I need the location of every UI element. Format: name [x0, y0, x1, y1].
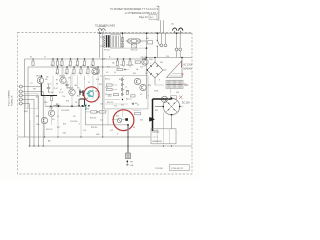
- svg-text:SIGNAL IN: SIGNAL IN: [10, 95, 13, 106]
- junction: [81, 105, 83, 107]
- junction in box: [122, 99, 123, 100]
- svg-text:BL: BL: [152, 123, 154, 125]
- wire: [123, 69, 129, 71]
- wire down 2: [80, 106, 82, 137]
- wire primary bottom: [100, 45, 105, 47]
- wire: [179, 33, 181, 48]
- svg-text:C11: C11: [105, 87, 108, 89]
- wire from note to bus 2: [163, 20, 165, 33]
- wire stub R25: [97, 67, 99, 69]
- wire stub R17: [123, 59, 125, 61]
- wire: [163, 113, 165, 129]
- plug lead: [174, 31, 176, 33]
- svg-text:R14: R14: [77, 96, 80, 98]
- wire: [180, 106, 184, 108]
- svg-text:R39 220: R39 220: [90, 118, 96, 120]
- svg-text:150: 150: [120, 65, 123, 67]
- wire box drop 2: [122, 109, 124, 117]
- choke L901 winding hatch: [166, 81, 168, 88]
- svg-text:C9: C9: [105, 94, 107, 96]
- wire: [112, 89, 117, 91]
- svg-text:68k: 68k: [75, 85, 78, 87]
- wire stub R16: [117, 59, 119, 61]
- svg-text:D8: D8: [101, 104, 103, 106]
- wire stub R20: [57, 67, 59, 69]
- fuse clip a: [175, 48, 178, 51]
- svg-text:o o o o: o o o o: [153, 137, 159, 139]
- svg-text:1k: 1k: [125, 87, 127, 89]
- svg-text:1k: 1k: [72, 73, 74, 75]
- svg-text:56k: 56k: [112, 63, 115, 65]
- svg-text:0.5: 0.5: [106, 72, 108, 74]
- svg-text:D5: D5: [78, 88, 80, 90]
- resistor R17: [122, 61, 124, 65]
- wire Q1 base: [40, 78, 42, 87]
- svg-text:R7: R7: [56, 80, 58, 82]
- svg-text:47k: 47k: [75, 102, 78, 104]
- svg-text:10/16: 10/16: [49, 108, 53, 110]
- svg-text:R21: R21: [119, 79, 122, 81]
- svg-text:S: S: [159, 80, 160, 82]
- resistor R14: [83, 61, 85, 65]
- wire: V+ rail: [25, 58, 144, 60]
- svg-text:4.7k: 4.7k: [75, 65, 78, 67]
- AC plug P901 prong 2: [179, 28, 183, 31]
- title block box: [170, 165, 190, 171]
- svg-text:R5: R5: [36, 97, 38, 99]
- resistor R23: [80, 69, 82, 73]
- thick wire: DC rail down: [152, 99, 154, 131]
- svg-text:220k: 220k: [44, 102, 48, 104]
- svg-text:R48: R48: [148, 85, 151, 87]
- svg-text:R41 0.5: R41 0.5: [126, 99, 132, 101]
- fuse clip b: [179, 48, 182, 51]
- pilot lamp PL901: [161, 96, 167, 102]
- input shield box: [26, 94, 39, 109]
- wire Q5 emitter: [44, 124, 46, 137]
- svg-text:Page 6 (TUNER): Page 6 (TUNER): [9, 90, 11, 106]
- svg-text:R40 1k: R40 1k: [105, 78, 110, 80]
- svg-text:R18: R18: [66, 101, 69, 103]
- wire: [161, 33, 163, 44]
- resistor R904: [171, 96, 177, 99]
- relay contact a: [128, 40, 131, 43]
- wire from note to bus: [160, 20, 162, 33]
- capacitor C15 (black): [125, 118, 128, 121]
- svg-text:C3 10: C3 10: [47, 84, 51, 86]
- wire: [155, 106, 163, 108]
- resistor R902: [121, 43, 123, 47]
- wire: long vertical feeder: [102, 33, 104, 137]
- wire jack J5: [22, 103, 29, 105]
- svg-text:Page 10: Page 10: [139, 17, 148, 19]
- connector pin b: [164, 44, 167, 47]
- svg-text:D901: D901: [149, 59, 153, 61]
- svg-text:1k: 1k: [88, 82, 90, 84]
- wire: top AC bus: [98, 32, 193, 34]
- svg-text:47k: 47k: [94, 101, 97, 103]
- thermal breaker TH901 triangle: [167, 61, 183, 78]
- svg-text:TO POWER LINES: TO POWER LINES: [95, 25, 115, 27]
- svg-text:R26: R26: [63, 124, 66, 126]
- svg-text:DC 33V: DC 33V: [182, 103, 191, 105]
- svg-text:24V: 24V: [184, 85, 189, 87]
- connector P1: [98, 29, 101, 31]
- wire resistor drop: [129, 75, 131, 77]
- input jack J5: [19, 102, 22, 105]
- bridge rectifier D901: [147, 62, 163, 78]
- cyan wire mark: [85, 104, 87, 111]
- svg-text:+35: +35: [103, 59, 106, 61]
- resistor R12: [69, 61, 71, 65]
- ground symbol: [126, 162, 129, 165]
- transistor Q9: [140, 84, 146, 90]
- thermistor lead: [118, 119, 121, 122]
- wire resistor drop: [92, 76, 94, 100]
- resistor R35: [107, 84, 113, 86]
- wire down J4: [33, 100, 35, 147]
- svg-text:R45: R45: [133, 73, 136, 75]
- svg-text:47: 47: [86, 73, 88, 75]
- terminal divider 2: [162, 129, 164, 144]
- wire Q2 collector: [62, 67, 64, 77]
- svg-text:470: 470: [68, 78, 71, 80]
- input jack J1: [19, 85, 22, 88]
- wire: [44, 96, 46, 107]
- svg-text:56: 56: [99, 97, 101, 99]
- svg-text:2SD218: 2SD218: [141, 57, 147, 59]
- transistor Q7: [142, 59, 148, 65]
- rail junction dots: [32, 58, 33, 59]
- svg-text:R15: R15: [99, 84, 102, 86]
- diode string D7-D10: [122, 77, 124, 96]
- svg-text:1k: 1k: [68, 65, 70, 67]
- wire: bias rail: [28, 66, 120, 68]
- pilot lamp filament: [163, 98, 166, 101]
- choke L901 box: [166, 80, 183, 88]
- svg-text:C14: C14: [100, 120, 103, 122]
- svg-text:0.47: 0.47: [114, 106, 117, 108]
- junction Q7: [144, 58, 146, 60]
- wire plug lead: [99, 31, 101, 33]
- wire stub R12: [70, 59, 72, 61]
- junction bridge E: [179, 106, 181, 108]
- junction: [146, 57, 148, 59]
- wire jack J4: [22, 99, 34, 101]
- wire from switch: [156, 47, 158, 58]
- wire: [141, 40, 147, 42]
- wire Q4 emitter: [51, 117, 53, 125]
- junction Q1: [41, 75, 43, 77]
- svg-text:100: 100: [55, 73, 58, 75]
- wire: [51, 101, 53, 110]
- resistor R21: [66, 69, 68, 73]
- junction: [97, 111, 98, 112]
- junction: [88, 105, 90, 107]
- svg-text:PT-901: PT-901: [104, 50, 110, 52]
- thick wire: output: [127, 125, 129, 153]
- terminal strip box: [151, 129, 176, 144]
- wire: AC feeder down: [99, 33, 101, 58]
- connector pin a: [160, 44, 163, 47]
- resistor R24: [87, 69, 89, 73]
- resistor R16: [116, 61, 118, 65]
- wire stub R14: [84, 59, 86, 61]
- svg-text:0.22: 0.22: [145, 73, 148, 75]
- wire inside box: [105, 99, 120, 101]
- driver board outline: [104, 76, 148, 109]
- svg-text:R16: R16: [87, 108, 90, 110]
- svg-text:E 4 8 16: E 4 8 16: [153, 132, 160, 134]
- wire stub R13: [77, 59, 79, 61]
- wire: [176, 33, 178, 48]
- resistor R47: [126, 90, 128, 94]
- svg-text:47u: 47u: [52, 119, 55, 121]
- thick wire from Q1 emitter: [41, 83, 57, 95]
- svg-text:C5 47: C5 47: [54, 88, 58, 90]
- wire: chassis rail: [30, 145, 192, 147]
- wire stub R22: [73, 67, 75, 69]
- wire resistor drop: [123, 76, 125, 78]
- capacitor C8: [54, 104, 61, 107]
- svg-text:123 456: 123 456: [155, 168, 163, 170]
- resistor R22: [73, 69, 75, 73]
- wire: [170, 88, 172, 93]
- svg-text:R19: R19: [107, 67, 110, 69]
- bias diode cluster: [79, 90, 86, 106]
- svg-text:100k: 100k: [36, 124, 40, 126]
- jack J1 stub: [18, 86, 20, 88]
- wire: [112, 84, 117, 86]
- wire: [179, 51, 181, 58]
- svg-text:100k: 100k: [63, 133, 67, 135]
- wire Q7 top: [144, 58, 146, 60]
- wire resistor drop: [70, 76, 72, 90]
- svg-text:C1: C1: [44, 57, 46, 59]
- svg-text:R22 100: R22 100: [107, 102, 113, 104]
- thermistor TH1: [117, 118, 121, 122]
- diode D902 (black): [150, 117, 155, 121]
- junction: [181, 57, 183, 59]
- svg-text:220: 220: [73, 116, 76, 118]
- junction: [58, 105, 60, 107]
- wire: [111, 47, 147, 49]
- transistor Q6: [92, 68, 98, 74]
- junction in box 2: [132, 103, 133, 104]
- svg-text:C901 .01: C901 .01: [131, 50, 138, 52]
- wire: feedback down: [84, 107, 86, 125]
- jack J2 stub: [18, 91, 20, 93]
- svg-text:C20: C20: [166, 56, 169, 58]
- wire: AC return bus: [147, 57, 193, 59]
- jack J5 stub: [18, 103, 20, 105]
- wire Q3 collector: [71, 73, 73, 89]
- resistor R32: [135, 61, 140, 63]
- svg-text:B+: B+: [109, 57, 111, 59]
- resistor R34: [50, 97, 52, 101]
- wire: [171, 115, 173, 129]
- wire: [122, 33, 124, 48]
- fuse F1 box: [125, 153, 130, 159]
- switch contact: [157, 40, 158, 41]
- wire triangle top: [181, 58, 183, 61]
- wire bridge right: [163, 69, 167, 71]
- resistor R903: [148, 41, 153, 44]
- terminal divider: [156, 129, 158, 144]
- svg-text:1-234-567-11: 1-234-567-11: [171, 168, 185, 170]
- transistor Q3: [69, 89, 75, 95]
- transformer T901 secondary box: [111, 35, 121, 48]
- svg-text:R1: R1: [30, 57, 32, 59]
- wire: [126, 40, 128, 42]
- transformer secondary hatch: [111, 36, 113, 48]
- wire stub R10: [52, 59, 54, 61]
- switch contact 2: [157, 46, 158, 47]
- wire bridge bottom: [154, 78, 156, 85]
- plug lead 2: [180, 31, 182, 33]
- wire: bottom bus: [85, 124, 128, 126]
- cyan transistor Q10 (highlighted): [87, 90, 94, 97]
- svg-text:x2: x2: [60, 89, 62, 91]
- wire: [155, 84, 164, 86]
- jack J4 stub: [18, 99, 20, 101]
- wire: mid bus: [45, 105, 86, 107]
- wire down: [57, 106, 59, 137]
- svg-text:R29 330: R29 330: [91, 127, 97, 129]
- bridge rectifier D903: [163, 98, 180, 115]
- svg-text:22k: 22k: [46, 77, 49, 79]
- junction bridge N: [171, 97, 173, 99]
- junction: [176, 32, 178, 34]
- svg-text:5k(B): 5k(B): [24, 111, 28, 113]
- wire rail left down: [24, 59, 26, 137]
- capacitor C4: [47, 85, 50, 92]
- svg-text:8P: 8P: [133, 127, 135, 129]
- junction output: [127, 124, 129, 126]
- relay contact b: [138, 40, 141, 43]
- wire down J2: [42, 92, 44, 147]
- wire resistor drop: [117, 75, 119, 77]
- relay K901: [127, 39, 140, 44]
- resistor R20: [56, 69, 58, 73]
- junction: [99, 32, 101, 34]
- wire down J5: [28, 104, 30, 147]
- svg-text:or OTHERWISE NOTED A TO L: or OTHERWISE NOTED A TO L: [125, 12, 159, 15]
- resistor R38: [100, 111, 106, 113]
- wire box drop 3: [132, 109, 134, 111]
- input jack J2: [19, 90, 22, 93]
- junction: [122, 32, 124, 34]
- resistor R43: [135, 113, 141, 115]
- bridge D903 diagonals: [166, 101, 178, 113]
- junction bridge W: [162, 106, 164, 108]
- svg-text:8.2k: 8.2k: [96, 73, 99, 75]
- wire stub R11: [61, 59, 63, 61]
- svg-text:B2: B2: [127, 91, 129, 93]
- emitter resistor pair: [108, 95, 112, 97]
- wire: [112, 119, 117, 121]
- svg-text:C18: C18: [140, 67, 143, 69]
- svg-text:0.5: 0.5: [140, 94, 142, 96]
- wire resistor drop: [77, 76, 79, 89]
- thick wire: DC rail top: [153, 98, 172, 100]
- wire resistor drop: [61, 65, 63, 77]
- svg-text:82: 82: [132, 65, 134, 67]
- junction bridge left: [147, 69, 148, 70]
- svg-text:2.2k: 2.2k: [91, 65, 94, 67]
- resistor R11: [61, 61, 63, 65]
- transistor Q8: [134, 78, 140, 84]
- resistor R901: [121, 38, 123, 42]
- svg-text:R9 56k: R9 56k: [48, 92, 53, 94]
- svg-text:0.5: 0.5: [114, 72, 116, 74]
- wire rail left down 2: [27, 67, 29, 109]
- wire stub R24: [87, 67, 89, 69]
- bracket for note: [157, 6, 159, 20]
- svg-text:1.5k: 1.5k: [62, 96, 65, 98]
- transistor Q5: [41, 117, 47, 123]
- svg-text:C5: C5: [66, 85, 68, 87]
- wire: [176, 51, 178, 58]
- svg-text:4.7k: 4.7k: [96, 79, 99, 81]
- resistor R25: [97, 69, 99, 73]
- wire resistor drop: [97, 76, 99, 100]
- svg-text:R44: R44: [140, 120, 143, 122]
- jack J3 stub: [18, 95, 20, 97]
- wire cluster: [78, 99, 80, 106]
- svg-text:TP1: TP1: [130, 161, 133, 163]
- capacitor C6: [65, 82, 68, 89]
- wire inside driver box: [105, 103, 128, 105]
- wire Q3 emitter: [71, 96, 73, 107]
- transistor Q1: [37, 77, 43, 83]
- svg-text:C2: C2: [31, 83, 33, 85]
- wire stub R18: [129, 59, 131, 61]
- wire: ground rail: [18, 136, 152, 138]
- wire stub R15: [92, 59, 94, 61]
- resistor R36: [107, 88, 113, 90]
- red highlight circle 1: [84, 87, 99, 102]
- svg-text:C10 100/25: C10 100/25: [61, 110, 69, 112]
- border frame (dashed): [18, 33, 193, 175]
- svg-text:VR1: VR1: [33, 89, 36, 91]
- wire bridge top: [154, 58, 156, 63]
- resistor R46: [114, 94, 119, 96]
- wire jack J1: [22, 86, 40, 88]
- transformer T901 core: [106, 35, 108, 47]
- svg-text:C7 47: C7 47: [59, 92, 63, 94]
- wire stub R30: [57, 59, 59, 61]
- svg-text:C13 47/50: C13 47/50: [70, 121, 77, 123]
- wire: [153, 130, 159, 132]
- relay coil box: [132, 39, 137, 42]
- svg-text:SW: SW: [146, 38, 149, 40]
- wire resistor drop: [52, 76, 54, 96]
- wire stub R21: [66, 67, 68, 69]
- capacitor C901 cross: [131, 44, 136, 48]
- resistor R37: [91, 111, 97, 113]
- wire: [134, 110, 142, 112]
- svg-text:AC 120V: AC 120V: [183, 64, 193, 67]
- wire: [165, 33, 167, 44]
- junction: [78, 105, 80, 107]
- wire: [29, 120, 31, 146]
- svg-text:R27: R27: [57, 127, 60, 129]
- svg-text:2SC458: 2SC458: [59, 75, 65, 77]
- wire: [97, 111, 100, 113]
- svg-text:R8: R8: [56, 84, 58, 86]
- wire stub R31: [32, 59, 34, 61]
